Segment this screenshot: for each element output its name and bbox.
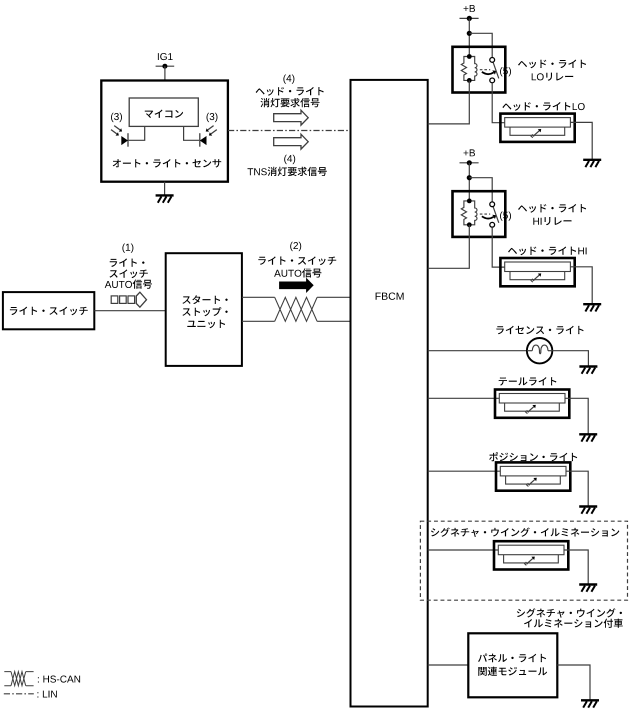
label position light (489, 452, 577, 461)
relay K2 headlight HI (453, 191, 506, 237)
power +B label (HI) (464, 149, 476, 156)
panel light module label line2 (478, 667, 547, 676)
label (2) (290, 242, 301, 251)
wire FBCM to panel light module (428, 664, 469, 666)
start-stop unit box (166, 253, 242, 366)
ground G3 (headlight HI) (583, 303, 601, 305)
lamp signature wing illumination (494, 541, 568, 569)
light switch box SW1 (3, 292, 94, 329)
wire FBCM to position light (428, 470, 501, 472)
wire LO relay coil to FBCM (428, 80, 470, 124)
label (5) HI (500, 212, 511, 221)
label headlight LO relay line1 (518, 60, 586, 69)
photodiode D1 (121, 133, 128, 147)
lamp position light (496, 462, 570, 490)
label headlight HI relay line1 (518, 204, 586, 213)
label headlight off request line1 (256, 87, 324, 96)
digital signal symbol (111, 292, 146, 307)
label headlight off request line2 (260, 98, 319, 107)
wire light switch to start-stop unit (94, 310, 165, 312)
label signature wing illumination (431, 528, 619, 538)
label (5) LO (500, 67, 511, 76)
signal arrow TNS-off request (274, 134, 309, 149)
label light switch AUTO (2) line1 (258, 256, 336, 265)
wire FBCM to license light (428, 350, 527, 352)
relay K1 headlight LO (453, 47, 506, 93)
photodiode D2 (200, 133, 207, 147)
wire LO relay switch to lamp (492, 83, 505, 123)
power terminal +B (LO) (460, 16, 479, 21)
lamp license light bulb (527, 338, 552, 363)
wire HI relay coil to FBCM (428, 225, 470, 268)
node branch (LO) (467, 31, 472, 36)
legend LIN text (37, 691, 56, 698)
legend HS-CAN twisted pair symbol (4, 672, 33, 686)
microcomputer label (145, 110, 183, 119)
label headlight LO lamp (502, 102, 584, 111)
note signature wing equipped line2 (524, 619, 623, 628)
twisted pair braid wire B (275, 297, 317, 321)
label TNS off request signal (248, 167, 327, 176)
ground G2 (headlight LO) (583, 159, 601, 161)
power terminal IG1 (156, 64, 175, 69)
label tail light (499, 377, 557, 386)
wire +B to HI relay coil (468, 163, 470, 201)
start-stop label line3 (187, 320, 225, 329)
light arrows into D1 (111, 126, 122, 136)
wire +B to LO relay coil (468, 18, 470, 56)
label license light (496, 326, 583, 334)
auto light sensor label (113, 159, 222, 167)
label light switch AUTO signal line2 (110, 269, 148, 278)
label (4) TNS (284, 155, 295, 164)
label light switch AUTO (2) line2 (274, 268, 321, 277)
ground G5 (tail) (579, 433, 597, 435)
start-stop label line2 (182, 307, 227, 316)
label headlight HI relay line2 (533, 217, 571, 225)
label light switch AUTO signal line1 (110, 258, 145, 267)
wire FBCM to tail light (428, 397, 500, 399)
FBCM box U2 (351, 80, 428, 707)
label light switch AUTO signal line3 (105, 280, 152, 289)
note signature wing equipped line1 (517, 608, 622, 618)
wire HI lamp to ground (570, 267, 592, 304)
auto light sensor box U1 (101, 81, 228, 182)
wire sensor to ground (164, 182, 166, 196)
light switch label (10, 307, 88, 316)
signal arrow headlight-off request (274, 110, 309, 125)
lamp headlight LO (500, 114, 574, 142)
CAN direction arrow (279, 278, 314, 293)
FBCM label (376, 293, 404, 300)
legend LIN line symbol (4, 693, 34, 695)
wire micom to right photodiode (184, 126, 200, 140)
power terminal +B (HI) (460, 160, 479, 165)
wire LIN bus sensor to FBCM (228, 130, 351, 132)
label (3) right (207, 113, 218, 122)
wire position light to ground (566, 471, 588, 506)
label headlight LO relay line2 (532, 73, 574, 81)
wire tail light to ground (565, 398, 588, 434)
twisted pair braid wire A (275, 297, 317, 321)
lamp tail light (495, 390, 569, 418)
wire signature wing lamp to ground (564, 550, 588, 585)
wire branch to HI relay switch (469, 178, 492, 202)
lamp headlight HI (500, 258, 574, 286)
label (1) (122, 244, 133, 253)
wire micom to left photodiode (129, 126, 145, 140)
panel light module label line1 (478, 654, 546, 663)
label (3) left (111, 113, 122, 122)
wire branch to LO relay switch (469, 33, 492, 57)
microcomputer box (129, 98, 198, 126)
wire twisted pair top (242, 296, 351, 298)
power +B label (LO) (464, 5, 476, 12)
wire license light to ground (552, 351, 588, 367)
ground G1 (sensor) (156, 194, 174, 196)
wire LO lamp to ground (570, 122, 592, 159)
wire HI relay switch to lamp (492, 227, 505, 267)
legend HS-CAN text (38, 676, 80, 683)
wire FBCM to signature wing lamp (428, 549, 499, 551)
light arrows into D2 (206, 126, 217, 136)
label (4) headlight (283, 75, 294, 84)
node IG1 label (158, 53, 173, 60)
ground G4 (license) (579, 365, 597, 367)
label headlight HI lamp (508, 247, 587, 256)
option dashed box signature wing (420, 521, 627, 600)
wire panel module to ground (557, 665, 590, 700)
wire IG1 to sensor box (164, 66, 166, 80)
ground G6 (position) (579, 505, 597, 507)
ground G8 (panel module) (581, 699, 599, 701)
start-stop label line1 (182, 295, 227, 304)
panel light module box (468, 633, 557, 697)
wire twisted pair bottom (242, 320, 351, 322)
node branch (HI) (467, 175, 472, 180)
ground G7 (signature wing) (579, 583, 597, 585)
